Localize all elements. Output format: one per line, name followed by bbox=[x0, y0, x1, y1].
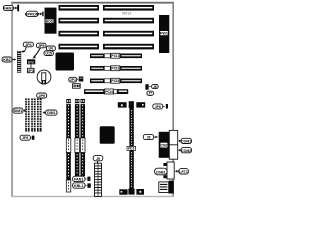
port bracket outline bbox=[169, 130, 177, 159]
svg-text:FAN2: FAN2 bbox=[3, 5, 14, 10]
label JP1 bbox=[69, 77, 77, 82]
label J8 bbox=[143, 134, 153, 139]
ISA slot 3 bbox=[59, 31, 155, 37]
label SIMM1 bbox=[13, 108, 23, 113]
SIMM socket bar 2 center bbox=[75, 99, 80, 176]
svg-text:JP1: JP1 bbox=[70, 78, 76, 82]
svg-text:EPROM: EPROM bbox=[25, 11, 39, 16]
board outline bottom edge bbox=[11, 196, 174, 197]
svg-text:BIOS: BIOS bbox=[45, 19, 54, 23]
wire leader from JP4 down bbox=[22, 47, 27, 52]
label J6 bbox=[152, 84, 159, 88]
SIMM socket bar 1 center bbox=[66, 99, 71, 192]
svg-text:COM1: COM1 bbox=[181, 140, 191, 144]
label SM3 bbox=[20, 135, 30, 140]
svg-text:DIM1: DIM1 bbox=[47, 111, 55, 115]
svg-text:JP6: JP6 bbox=[155, 105, 161, 109]
keyboard DIN connector KB1 bbox=[159, 181, 174, 194]
svg-text:FAN1: FAN1 bbox=[74, 178, 83, 182]
label FAN1 bbox=[73, 176, 85, 181]
svg-text:KBL1: KBL1 bbox=[74, 184, 84, 188]
power connector PW1 bbox=[159, 15, 169, 53]
svg-text:J7: J7 bbox=[148, 92, 152, 96]
wire arrow from COM1 bbox=[180, 140, 181, 142]
wire arrow from LPT1 bbox=[177, 170, 179, 172]
wire arrow to J6 label bbox=[149, 85, 151, 87]
label U15 bbox=[44, 51, 53, 56]
wire from U7 to JP3 bbox=[30, 64, 32, 68]
board outline top edge bbox=[11, 2, 174, 4]
label COM2 bbox=[181, 148, 192, 153]
ISA slot 4 bbox=[59, 44, 155, 50]
IDE connector 2 (right top bar) bbox=[136, 102, 145, 107]
label KB2 bbox=[2, 57, 12, 62]
CPU chip U2 bbox=[100, 126, 115, 144]
svg-text:M519: M519 bbox=[122, 12, 131, 16]
jumper JP6 bbox=[166, 104, 168, 109]
label JP6 bbox=[153, 104, 163, 109]
wire arrow from FAN1 bbox=[85, 178, 87, 180]
front panel header J4 bbox=[95, 163, 102, 196]
wire leader from JP5 down bbox=[34, 48, 41, 58]
SIMM socket bar 3 center bbox=[81, 99, 86, 176]
ISA slot 1 bbox=[59, 5, 155, 11]
wire from J4 to header bbox=[97, 161, 99, 164]
label PW1 bbox=[160, 31, 168, 35]
svg-text:J6: J6 bbox=[153, 85, 157, 89]
jumper J6 bbox=[145, 84, 148, 90]
connector J5 bbox=[87, 183, 90, 187]
label CN2 bbox=[160, 143, 167, 148]
DIMM socket bank left (3 slots) bbox=[25, 98, 41, 131]
svg-text:JP3: JP3 bbox=[28, 69, 34, 73]
connector FAN1 bbox=[87, 177, 90, 181]
board outline right edge bbox=[172, 2, 174, 197]
label J4 bbox=[93, 156, 103, 161]
bottom connector left block bbox=[119, 189, 127, 194]
serial port stack connector CN2 bbox=[159, 132, 170, 158]
wire arrow from J8 bbox=[154, 136, 157, 138]
wire arrow from COM2 bbox=[180, 149, 181, 151]
label JP9 bbox=[37, 93, 47, 98]
svg-text:U15: U15 bbox=[45, 52, 52, 56]
label FD1 bbox=[127, 146, 136, 150]
label COM1 bbox=[181, 138, 192, 143]
svg-text:PW1: PW1 bbox=[160, 31, 168, 35]
svg-text:CN2: CN2 bbox=[161, 144, 168, 148]
svg-text:SIM1: SIM1 bbox=[14, 109, 22, 113]
svg-text:COM2: COM2 bbox=[181, 149, 191, 153]
wire arrow from J5 bbox=[85, 185, 87, 187]
bottom connector right block bbox=[136, 189, 144, 195]
svg-text:RTC: RTC bbox=[28, 60, 35, 64]
wire arrow from SIMM1 bbox=[23, 110, 25, 112]
svg-text:USB1: USB1 bbox=[156, 170, 166, 174]
label USB1 bbox=[155, 168, 167, 175]
wire arrow from U10 label bbox=[38, 13, 41, 15]
label LPT1 bbox=[179, 169, 189, 174]
label FAN2 bbox=[3, 5, 14, 10]
svg-text:JP9: JP9 bbox=[38, 94, 45, 98]
svg-text:PCI4: PCI4 bbox=[105, 90, 113, 94]
svg-text:J9: J9 bbox=[96, 157, 100, 161]
PCI slot 3 bbox=[90, 78, 142, 83]
PCI slot 2 bbox=[90, 66, 142, 71]
label JP4 bbox=[23, 42, 33, 47]
svg-text:PCI3: PCI3 bbox=[111, 79, 119, 83]
board outline left edge bbox=[11, 2, 13, 197]
svg-text:LPT1: LPT1 bbox=[179, 170, 188, 174]
label JP5 bbox=[36, 43, 46, 48]
chip U10 flash BIOS bbox=[45, 8, 57, 34]
wire arrow from JP6 bbox=[163, 105, 165, 107]
wire arrow from KB2 bbox=[12, 59, 15, 61]
connector FAN2 bbox=[17, 5, 19, 12]
svg-text:U6: U6 bbox=[49, 47, 54, 51]
svg-text:JP4: JP4 bbox=[25, 43, 33, 47]
USB port outline bbox=[163, 162, 174, 179]
ISA slot 2 bbox=[59, 18, 155, 24]
svg-text:PCI1: PCI1 bbox=[111, 54, 119, 58]
jumper JP1 pins bbox=[79, 77, 84, 82]
wire arrow from DIMM1 bbox=[44, 112, 45, 114]
svg-text:PCI2: PCI2 bbox=[111, 67, 119, 71]
svg-text:JP8: JP8 bbox=[22, 136, 28, 140]
jumper SM3 bbox=[32, 136, 35, 140]
IDE connector 1 (left top bar) bbox=[118, 102, 127, 107]
floppy connector FD1 vertical column bbox=[129, 101, 134, 189]
label J5 bbox=[73, 183, 85, 188]
svg-text:J8: J8 bbox=[147, 136, 151, 140]
keyboard header J10 ladder bbox=[17, 51, 21, 72]
battery BT1 bbox=[37, 70, 51, 84]
label DIMM1 bbox=[46, 110, 57, 115]
dip switch SW1 bbox=[73, 84, 81, 89]
wire arrow from SM3 bbox=[30, 137, 31, 139]
label U6 bbox=[46, 46, 55, 51]
PCI slot 1 bbox=[90, 53, 142, 58]
svg-text:KB2: KB2 bbox=[3, 58, 10, 62]
chip U7 RTC bbox=[27, 59, 35, 64]
bottom connector center block bbox=[128, 189, 134, 195]
label JP2 bbox=[147, 91, 154, 95]
wire arrow from FAN2 label bbox=[14, 7, 17, 9]
svg-text:FD1: FD1 bbox=[128, 147, 134, 151]
wire arrow from JP1 bbox=[77, 78, 78, 81]
label on chip U10 bbox=[44, 19, 53, 23]
PCI slot 4 short bbox=[84, 89, 128, 94]
label JP3 bbox=[28, 68, 35, 73]
chipset U1 bbox=[56, 53, 75, 71]
svg-text:JP5: JP5 bbox=[38, 44, 45, 48]
label U10 bbox=[25, 11, 39, 16]
